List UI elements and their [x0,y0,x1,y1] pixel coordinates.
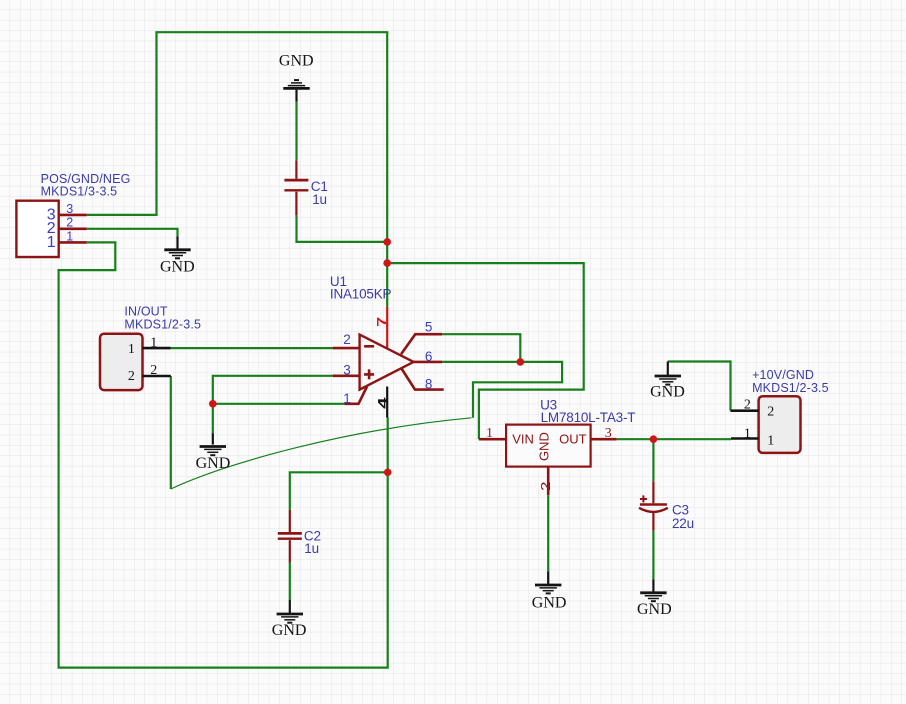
wire: C1 top to GND [295,102,297,161]
svg-text:2: 2 [767,405,774,420]
capacitor C2 [278,510,302,563]
svg-text:GND: GND [272,622,307,639]
connector IN/OUT [100,334,171,390]
svg-text:GND: GND [537,432,552,461]
wire: U1 pin5 feedback to pin6 [442,334,520,362]
ground GND below C2 [277,600,303,623]
svg-text:2: 2 [539,481,553,491]
connector +10V/GND [731,396,801,453]
ground GND below C3 [640,579,666,601]
svg-text:4: 4 [376,397,390,408]
svg-text:MKDS1/2-3.5: MKDS1/2-3.5 [752,381,829,395]
svg-text:22u: 22u [672,516,694,531]
svg-text:7: 7 [375,317,389,327]
junction at C1 supply [383,238,391,246]
ground GND below U1 input node [200,433,226,455]
wire: C2 bottom to GND [289,563,291,600]
junction at U1 input node [209,400,217,408]
svg-text:GND: GND [160,259,195,276]
svg-text:1: 1 [486,426,493,441]
svg-text:3: 3 [66,202,73,216]
ground GND top (flipped) above C1 [283,80,309,102]
wire: node to GND [212,404,214,433]
svg-text:+10V/GND: +10V/GND [752,368,814,382]
svg-text:1: 1 [767,434,774,449]
svg-text:GND: GND [637,601,672,618]
svg-text:GND: GND [279,52,314,69]
wire: U1 pin1 to node [213,403,345,405]
voltage regulator U3 [479,425,617,496]
wire: POS pin3 net to top bus and U1 pin7 [87,32,387,306]
svg-text:INA105KP: INA105KP [330,287,392,302]
svg-text:3: 3 [343,362,351,377]
svg-text:1: 1 [150,335,157,350]
junction at U1 output feedback [517,358,525,366]
svg-text:1u: 1u [304,541,319,556]
svg-text:1u: 1u [312,192,327,207]
junction at C2 branch [384,469,392,477]
wire: U3 OUT to +10V pin1 [617,438,731,440]
wire: C1 bottom to supply vertical [297,215,388,242]
wire: POS pin1 long loop to U1 pin4 [59,242,388,667]
svg-text:2: 2 [343,332,351,347]
op-amp U1 [333,307,444,418]
svg-text:OUT: OUT [559,432,587,447]
svg-text:MKDS1/3-3.5: MKDS1/3-3.5 [41,184,118,198]
wire: supply to U3 VIN [387,263,584,439]
svg-text:IN/OUT: IN/OUT [124,305,167,319]
ground GND near POS pin2 [164,237,190,259]
wire: U1 pin3 net [213,376,333,404]
wire: curved net from IN/OUT pin2 to output node [171,418,472,489]
svg-text:5: 5 [425,320,433,335]
capacitor C1 [284,160,308,215]
wire: C3 bottom to GND [652,531,654,579]
svg-text:2: 2 [66,216,73,230]
svg-text:1: 1 [66,230,73,244]
svg-text:8: 8 [425,377,433,392]
connector POS/GND/NEG [16,201,86,257]
wire: C2 to pin4 net [290,472,388,510]
svg-text:2: 2 [128,369,135,384]
ground GND below U3 pin2 [535,571,561,593]
svg-text:6: 6 [425,349,433,364]
svg-text:1: 1 [47,234,56,251]
wire: U1 pin6 output routing [442,362,562,418]
junction at U3 OUT node [650,435,658,443]
wire: IN/OUT pin1 to U1 pin2 [171,347,333,349]
svg-text:3: 3 [605,426,612,441]
svg-text:MKDS1/2-3.5: MKDS1/2-3.5 [124,318,201,332]
svg-text:VIN: VIN [512,432,534,447]
svg-text:GND: GND [196,455,231,472]
wire: POS pin2 to GND [87,229,178,237]
ground GND top right near +10V connector [655,362,681,385]
svg-text:1: 1 [343,391,351,406]
svg-text:GND: GND [650,384,685,401]
wire: GND to +10V pin2 [668,362,731,411]
svg-text:2: 2 [744,398,751,413]
svg-text:LM7810L-TA3-T: LM7810L-TA3-T [541,410,636,425]
junction at supply to U3 branch [383,259,391,267]
capacitor C3 (polarized) [639,481,668,531]
svg-text:2: 2 [150,363,157,378]
svg-text:GND: GND [532,595,567,612]
wire: OUT node down to C3 [652,439,654,481]
svg-text:1: 1 [128,342,135,357]
svg-text:1: 1 [744,427,751,442]
wire: U3 GND pin to GND [547,495,549,571]
wire: IN/OUT pin2 down [170,376,172,489]
